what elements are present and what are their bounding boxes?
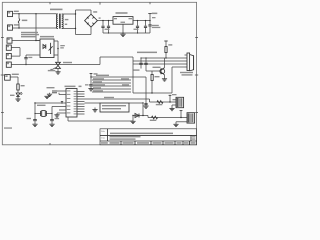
ground osc area [44, 96, 49, 98]
diode D2 [135, 114, 139, 118]
wire osc1 [35, 102, 66, 104]
resistor R4 [156, 101, 163, 106]
node mains to opto [35, 13, 36, 40]
net bus rungs [92, 78, 131, 92]
connector J3 midi out 2 [187, 113, 195, 123]
power +5V terminal [148, 13, 157, 22]
ground ic right [92, 108, 97, 112]
crystal Y1 circuit [34, 102, 52, 119]
ground ic left [54, 115, 59, 117]
wire dc rail out [133, 20, 150, 22]
wire data2 [133, 63, 187, 65]
connector X3 pin a [6, 45, 11, 50]
capacitor C11 [134, 57, 148, 71]
wire mains L [13, 13, 57, 15]
wire midi2 [132, 115, 187, 118]
connector LCD module [100, 103, 129, 112]
bridge rectifier B1 [85, 11, 101, 27]
transistor Q2 BC557 [146, 58, 165, 75]
ground c9 [88, 89, 93, 91]
border frame [1, 2, 199, 145]
wire shield [172, 66, 187, 68]
capacitor C4 [144, 20, 147, 33]
wire secondary bottom [62, 28, 76, 30]
wire serial out [85, 97, 150, 99]
connector X1 pin L [8, 11, 19, 17]
capacitor C12 [144, 103, 147, 106]
power +5V mcu [90, 73, 98, 84]
wire spare pin [68, 117, 133, 121]
label TRAFO [50, 9, 63, 11]
connector X3 pin b [6, 54, 11, 59]
ground c7 [32, 124, 37, 126]
ground triac [55, 72, 60, 74]
resistor R1 [17, 84, 25, 93]
wire mains N [13, 27, 57, 29]
power +5V pullup [164, 41, 172, 47]
wire lcd net [85, 102, 144, 103]
wire ic lower left pins [57, 110, 66, 115]
connector X4 power led [5, 74, 19, 81]
power +5V osc [61, 102, 63, 104]
power +5V midi2 [180, 111, 183, 119]
ground q2 [162, 75, 167, 81]
wire rail drop [145, 77, 147, 103]
capacitor C1 [101, 20, 104, 33]
wire bridge pins [11, 48, 20, 57]
capacitor C7 [27, 118, 37, 124]
connector X1 pin N [8, 24, 19, 30]
wire bridge ac loop [75, 10, 91, 35]
label MOC3041 [40, 36, 54, 38]
wire regulator gnd pin [122, 24, 124, 33]
ground rail drop [143, 106, 148, 108]
title block [100, 129, 197, 145]
fuse F1 across mains [18, 13, 27, 29]
resistor R3 [151, 71, 160, 94]
label LM7805 [116, 12, 128, 14]
ground c8 [49, 124, 54, 126]
wire osc2 [52, 106, 66, 108]
wire secondary top [62, 13, 76, 15]
led D1 [10, 92, 22, 99]
switch S1 reset [47, 87, 60, 95]
connector X3 pin c [6, 62, 11, 67]
wire rxd [133, 60, 187, 62]
capacitor C10 [139, 57, 142, 68]
label rs232 [137, 52, 157, 54]
wire ic right pin stubs [77, 92, 85, 115]
wire led feed [10, 77, 18, 84]
label PIC16F84 [65, 86, 82, 88]
ic U1 PIC16F84 [66, 89, 77, 118]
capacitor C5 [148, 17, 160, 33]
ground reset [47, 94, 52, 96]
connector X2 load pin [7, 38, 12, 43]
capacitor C9 [85, 84, 93, 88]
wire midi1 feed [149, 99, 151, 102]
capacitor C8 [50, 118, 59, 124]
power +5V midi1 [169, 94, 177, 103]
ground d2 [130, 116, 135, 124]
label triac note [21, 32, 39, 38]
ground midi2 [173, 122, 187, 127]
capacitor C6 series [24, 55, 32, 65]
wire opto pins [26, 41, 58, 56]
connector J1 rs232 [180, 53, 194, 76]
wire load top [12, 40, 40, 41]
ground rail [103, 32, 150, 34]
transformer TR1 [56, 14, 68, 29]
wire load return [11, 62, 100, 65]
ground midi1 [169, 105, 176, 111]
resistor R2 [165, 47, 167, 59]
capacitor C3 [134, 20, 140, 33]
connector J2 midi out 1 [173, 97, 184, 107]
ground led [15, 99, 20, 101]
wire reset pin [57, 91, 66, 95]
wire vdd rail [91, 75, 146, 77]
label note bottom left [4, 127, 12, 128]
wire gate node [57, 41, 65, 62]
wire midi1 [150, 101, 177, 103]
capacitor C2 [105, 20, 111, 33]
wire midi2 feed [142, 103, 144, 116]
wire load route [100, 57, 172, 93]
wire dc rail in [97, 20, 113, 22]
triac Q1 BT136 [48, 62, 61, 71]
opto-coupler U3 MOC3041 [40, 39, 54, 58]
regulator U2 7805 [113, 17, 133, 25]
resistor R5 [150, 116, 158, 121]
wire txd [141, 57, 187, 59]
ground regulator [120, 33, 125, 37]
